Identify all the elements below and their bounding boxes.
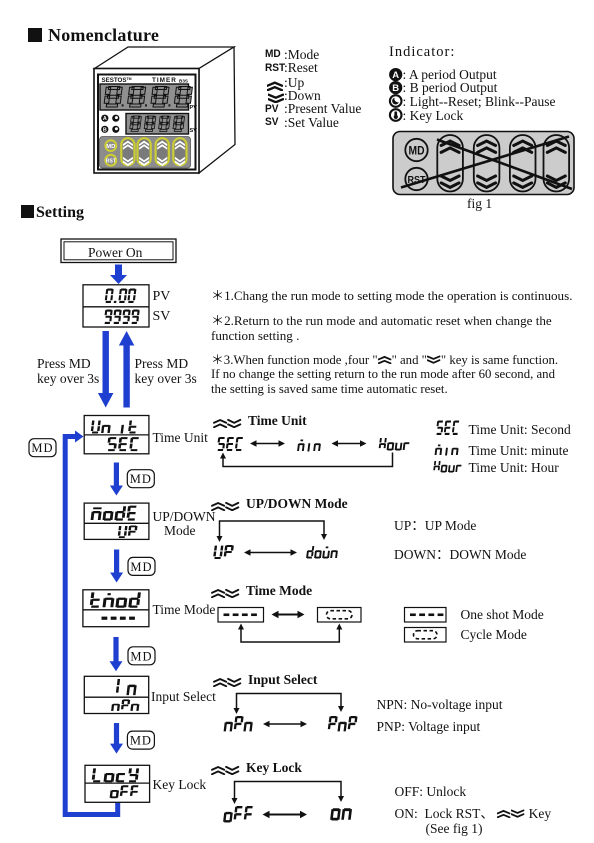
input select diagram [224, 694, 358, 732]
section header Time Mode [211, 584, 312, 602]
svg-text:A: A [103, 116, 107, 122]
time mode legend boxes [405, 608, 447, 623]
svg-text:PV: PV [190, 105, 198, 111]
arrow in to lock [114, 723, 119, 745]
svg-text:SV: SV [190, 128, 198, 134]
svg-text:B: B [103, 127, 107, 133]
flow box Key Lock [85, 765, 150, 802]
flow box Time Unit [84, 416, 149, 454]
note 1 [211, 288, 572, 303]
svg-text:MD: MD [130, 472, 152, 486]
fig1 caption [467, 196, 492, 212]
MD button label left [29, 439, 56, 457]
section header UP/DOWN Mode [211, 497, 348, 515]
MD label 3 [128, 647, 155, 665]
svg-text:RST: RST [106, 158, 117, 164]
svg-text:MD: MD [130, 734, 152, 748]
arrow unit to mode [114, 463, 119, 487]
MD label 1 [127, 470, 154, 488]
time unit cycle diagram [218, 437, 410, 467]
svg-text:TIMER: TIMER [152, 77, 177, 84]
note 2 [211, 313, 552, 343]
legend MD/RST/Up/Down/PV/SV [265, 48, 281, 61]
Indicator heading [389, 44, 455, 61]
time mode diagram [218, 608, 361, 643]
key lock ON note [395, 806, 552, 837]
svg-text:MD: MD [31, 441, 53, 455]
legend lcd SEC/nin/Hour [437, 421, 460, 436]
heading Setting [21, 204, 84, 222]
press MD labels [37, 356, 99, 387]
device button panel [100, 137, 191, 169]
svg-text:MD: MD [130, 560, 152, 574]
time unit legend [469, 422, 571, 438]
up/down diagram [213, 521, 338, 559]
MD label 4 [127, 731, 154, 749]
indicator icons [389, 68, 402, 81]
fig1 button panel [393, 132, 574, 195]
svg-text:MD: MD [106, 144, 115, 150]
device PV display [100, 84, 197, 111]
MD label 2 [128, 557, 155, 575]
section header Input Select [213, 673, 317, 691]
svg-text:B3S: B3S [179, 79, 188, 84]
flow box UP/DOWN Mode [84, 503, 149, 539]
arrow mode to tmod [114, 550, 119, 574]
arrow display up [123, 345, 129, 408]
arrow tmod to in [113, 637, 118, 662]
PV/SV display box [83, 285, 149, 327]
blue feedback loop [65, 431, 118, 815]
svg-text:B: B [392, 83, 399, 94]
section header Time Unit [213, 414, 307, 432]
heading Nomenclature [28, 25, 159, 46]
svg-text:A: A [392, 70, 399, 81]
power-on box [61, 239, 176, 263]
svg-text:MD: MD [130, 649, 152, 663]
flow box Input Select [84, 676, 148, 713]
section header Key Lock [211, 761, 302, 779]
device SV display [126, 114, 197, 135]
arrow display down [102, 331, 108, 394]
note 3 [211, 353, 558, 397]
key lock diagram [223, 782, 352, 823]
arrow power-on to display [115, 265, 122, 277]
device 3d box [94, 47, 235, 173]
flow box Time Mode [83, 590, 149, 627]
device indicator icons [101, 115, 108, 122]
svg-text:MD: MD [409, 146, 425, 158]
